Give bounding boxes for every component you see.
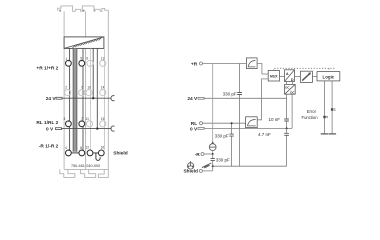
svg-text:15: 15 — [101, 117, 105, 121]
0V terminal symbol — [56, 128, 62, 130]
optocoupler — [300, 71, 312, 82]
svg-text:RL: RL — [191, 121, 197, 127]
module foot middle — [81, 169, 96, 177]
module right edge — [107, 10, 109, 169]
Logic block — [317, 72, 340, 81]
module foot left — [60, 169, 75, 177]
svg-text:-R 1/-R 2: -R 1/-R 2 — [39, 143, 59, 149]
LED left — [323, 116, 325, 118]
0V power jumper arc — [111, 126, 115, 131]
shield rail — [213, 165, 287, 167]
terminal circles row2 — [65, 90, 71, 96]
terminal circles row3 — [66, 121, 72, 127]
current source branch — [212, 64, 214, 155]
svg-text:330 pF: 330 pF — [223, 91, 237, 96]
svg-text:14: 14 — [101, 86, 105, 90]
wire opto to Logic — [312, 75, 317, 77]
svg-text:24 V: 24 V — [46, 96, 57, 102]
svg-text:A: A — [286, 72, 289, 76]
wire +R line — [203, 63, 247, 65]
terminal circles row1 — [66, 60, 72, 66]
terminal 0V — [198, 128, 204, 130]
wire -R line — [204, 153, 213, 155]
wire 24V line — [204, 94, 286, 98]
junction dot 0V — [96, 127, 98, 129]
svg-text:1: 1 — [66, 57, 68, 61]
wire 24V feed — [92, 48, 94, 98]
wire 0V feed — [96, 48, 98, 128]
wire F1 to MUX — [257, 64, 268, 75]
terminal -R — [201, 153, 204, 156]
junction dot -R — [212, 153, 214, 155]
capacitor 10nF — [286, 98, 288, 128]
terminal circles row4 — [66, 150, 72, 156]
svg-text:-R: -R — [195, 152, 201, 158]
svg-text:Function: Function — [302, 115, 319, 120]
LED right — [331, 108, 333, 110]
MUX U1 — [268, 71, 279, 82]
svg-text:330 pF: 330 pF — [216, 157, 230, 162]
svg-text:13: 13 — [101, 56, 105, 60]
svg-text:330 pF: 330 pF — [215, 133, 229, 138]
junction dot RL branch — [231, 122, 233, 124]
dashed control line Logic-MUX — [274, 68, 336, 71]
wire MUX to A/D — [280, 75, 285, 77]
svg-text:5: 5 — [80, 57, 82, 61]
capacitor 330pF -R branch — [212, 154, 214, 166]
svg-text:24 V: 24 V — [187, 96, 198, 102]
svg-text:MUX: MUX — [270, 75, 278, 79]
svg-text:7: 7 — [81, 117, 83, 121]
svg-text:6: 6 — [82, 86, 84, 90]
junction dot 0V/caps — [286, 127, 288, 129]
wire 0V line — [204, 94, 292, 128]
svg-text:Shield: Shield — [113, 151, 127, 157]
svg-text:8: 8 — [80, 146, 82, 150]
wire column 4 — [103, 48, 105, 150]
wire bundle — [73, 48, 76, 151]
module foot right notch — [98, 169, 108, 177]
svg-text:10 nF: 10 nF — [268, 117, 280, 122]
functional earth symbol — [187, 163, 193, 169]
capacitor 4.7nF — [286, 128, 288, 166]
wire column 3 — [90, 48, 92, 150]
current source circle — [209, 144, 216, 151]
svg-text:3: 3 — [64, 117, 66, 121]
wire column pin5 — [82, 48, 83, 150]
wire A/D to opto — [295, 75, 301, 77]
svg-text:9: 9 — [86, 57, 88, 61]
capacitor 330pF +R branch — [239, 64, 241, 167]
filter F2 — [246, 117, 258, 128]
function box diagonal — [64, 37, 104, 49]
svg-text:10: 10 — [87, 86, 91, 90]
svg-text:0 V: 0 V — [190, 126, 198, 132]
terminal +R — [200, 62, 203, 65]
pin numbers row1 — [64, 56, 105, 149]
ground bar right — [329, 133, 337, 135]
svg-text:16: 16 — [101, 145, 105, 149]
svg-text:Error: Error — [307, 109, 317, 114]
svg-text:750-461: 750-461 — [71, 164, 85, 168]
left labels — [36, 65, 127, 168]
module bottom edge — [64, 168, 108, 170]
module top clip profile — [58, 6, 109, 11]
wire F2 to MUX — [257, 79, 268, 120]
svg-text:Shield: Shield — [183, 169, 197, 175]
function box hatch ticks — [73, 38, 102, 48]
24V terminal symbol — [56, 97, 62, 99]
svg-text:+R: +R — [191, 61, 198, 67]
24V line — [62, 97, 111, 99]
current source arrow — [211, 141, 214, 143]
junction dot shield — [212, 165, 214, 167]
module left edge — [63, 11, 65, 169]
wire column pin1 — [68, 48, 69, 150]
function box with diagonal — [64, 37, 104, 49]
svg-text:RL 1/RL 2: RL 1/RL 2 — [36, 120, 58, 126]
svg-text:12: 12 — [85, 146, 89, 150]
0V line — [62, 128, 112, 130]
row4 link pins 12-16 + shield hook — [93, 153, 100, 160]
svg-text:040-000: 040-000 — [86, 164, 100, 168]
chassis ground symbol — [202, 163, 212, 168]
module latch dot middle — [83, 10, 85, 12]
DC/DC converter — [287, 82, 293, 85]
row4 link pins 4-8 — [72, 152, 79, 154]
svg-text:0 V: 0 V — [46, 126, 54, 132]
svg-text:4: 4 — [65, 146, 67, 150]
svg-text:2: 2 — [65, 86, 67, 90]
module latch dot left — [59, 10, 61, 12]
24V power jumper arc — [111, 96, 115, 101]
terminal Shield — [199, 169, 202, 172]
A/D converter — [285, 70, 295, 82]
capacitor 330pF RL branch — [231, 123, 233, 166]
svg-text:4.7 nF: 4.7 nF — [258, 132, 271, 137]
svg-text:D: D — [291, 78, 294, 82]
junction dot 24V — [92, 97, 94, 99]
svg-text:+R 1/+R 2: +R 1/+R 2 — [36, 65, 58, 71]
svg-text:11: 11 — [86, 117, 90, 121]
wire Shield — [202, 166, 212, 171]
wire RL line — [203, 122, 246, 124]
terminal 24V — [198, 97, 204, 99]
filter F1 — [246, 58, 257, 69]
ground bar left — [321, 133, 329, 135]
svg-text:Logic: Logic — [323, 74, 335, 79]
module middle line — [85, 11, 87, 169]
terminal RL — [200, 122, 203, 125]
Logic output lines — [325, 81, 333, 134]
